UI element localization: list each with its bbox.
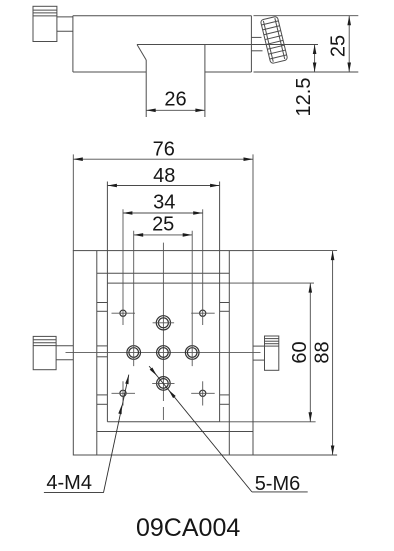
dimension 34 [123,192,203,214]
front view: right knob shaft [253,346,265,360]
svg-text:34: 34 [153,192,175,214]
M6 hole top [153,316,175,330]
svg-text:09CA004: 09CA004 [136,514,240,542]
dimension 12.5 [251,45,318,117]
side view: main body [73,16,252,72]
leader 5-M6 [149,366,308,495]
dimension 25 (front view) [134,213,193,235]
front view: top plate [107,182,219,422]
svg-text:25: 25 [152,213,174,235]
dimension 25 (side view) [254,16,359,72]
M6 hole middle-right [185,231,199,366]
front view: left inner vertical [96,251,98,455]
svg-text:25: 25 [328,35,350,57]
front view: left knob [33,336,56,369]
side view: left knob [33,6,57,41]
side view: base step edges [137,45,251,118]
dimension 26 [146,89,205,111]
leader 4-M4 [44,375,129,495]
M6 hole middle-left [127,231,141,366]
M4 hole bottom-left [112,381,136,405]
dimension 60 [220,283,316,422]
front view: outer body [73,251,253,455]
svg-text:76: 76 [153,138,175,160]
side view: tilted knurled knob [260,16,287,64]
front view: upper inner horizontal [97,272,230,274]
svg-text:88: 88 [312,341,334,363]
vertical centerline [162,243,164,401]
side view: left knob shaft [57,17,73,31]
dimension 88 [253,251,337,455]
side view: right knob shaft [251,37,262,50]
front view: lower inner horizontal [97,431,253,433]
svg-text:26: 26 [164,89,186,111]
front view: right knob [265,336,279,370]
front view: left carriage ledges [97,303,108,405]
svg-text:60: 60 [289,341,311,363]
svg-text:12.5: 12.5 [293,78,315,117]
M6 hole center [157,346,171,360]
front view: left knob shaft [56,346,73,360]
svg-text:4-M4: 4-M4 [46,472,92,494]
M4 hole top-right [191,209,215,325]
M6 hole bottom [152,377,174,391]
M4 hole top-left [112,209,136,325]
dimension 76 [73,138,253,250]
M4 hole bottom-right [191,381,215,405]
horizontal centerline [66,352,261,354]
dimension 48 [107,165,219,187]
svg-text:5-M6: 5-M6 [255,473,301,495]
front view: right carriage ledges [220,303,230,405]
svg-text:48: 48 [153,165,175,187]
front view: right inner vertical [228,251,230,455]
